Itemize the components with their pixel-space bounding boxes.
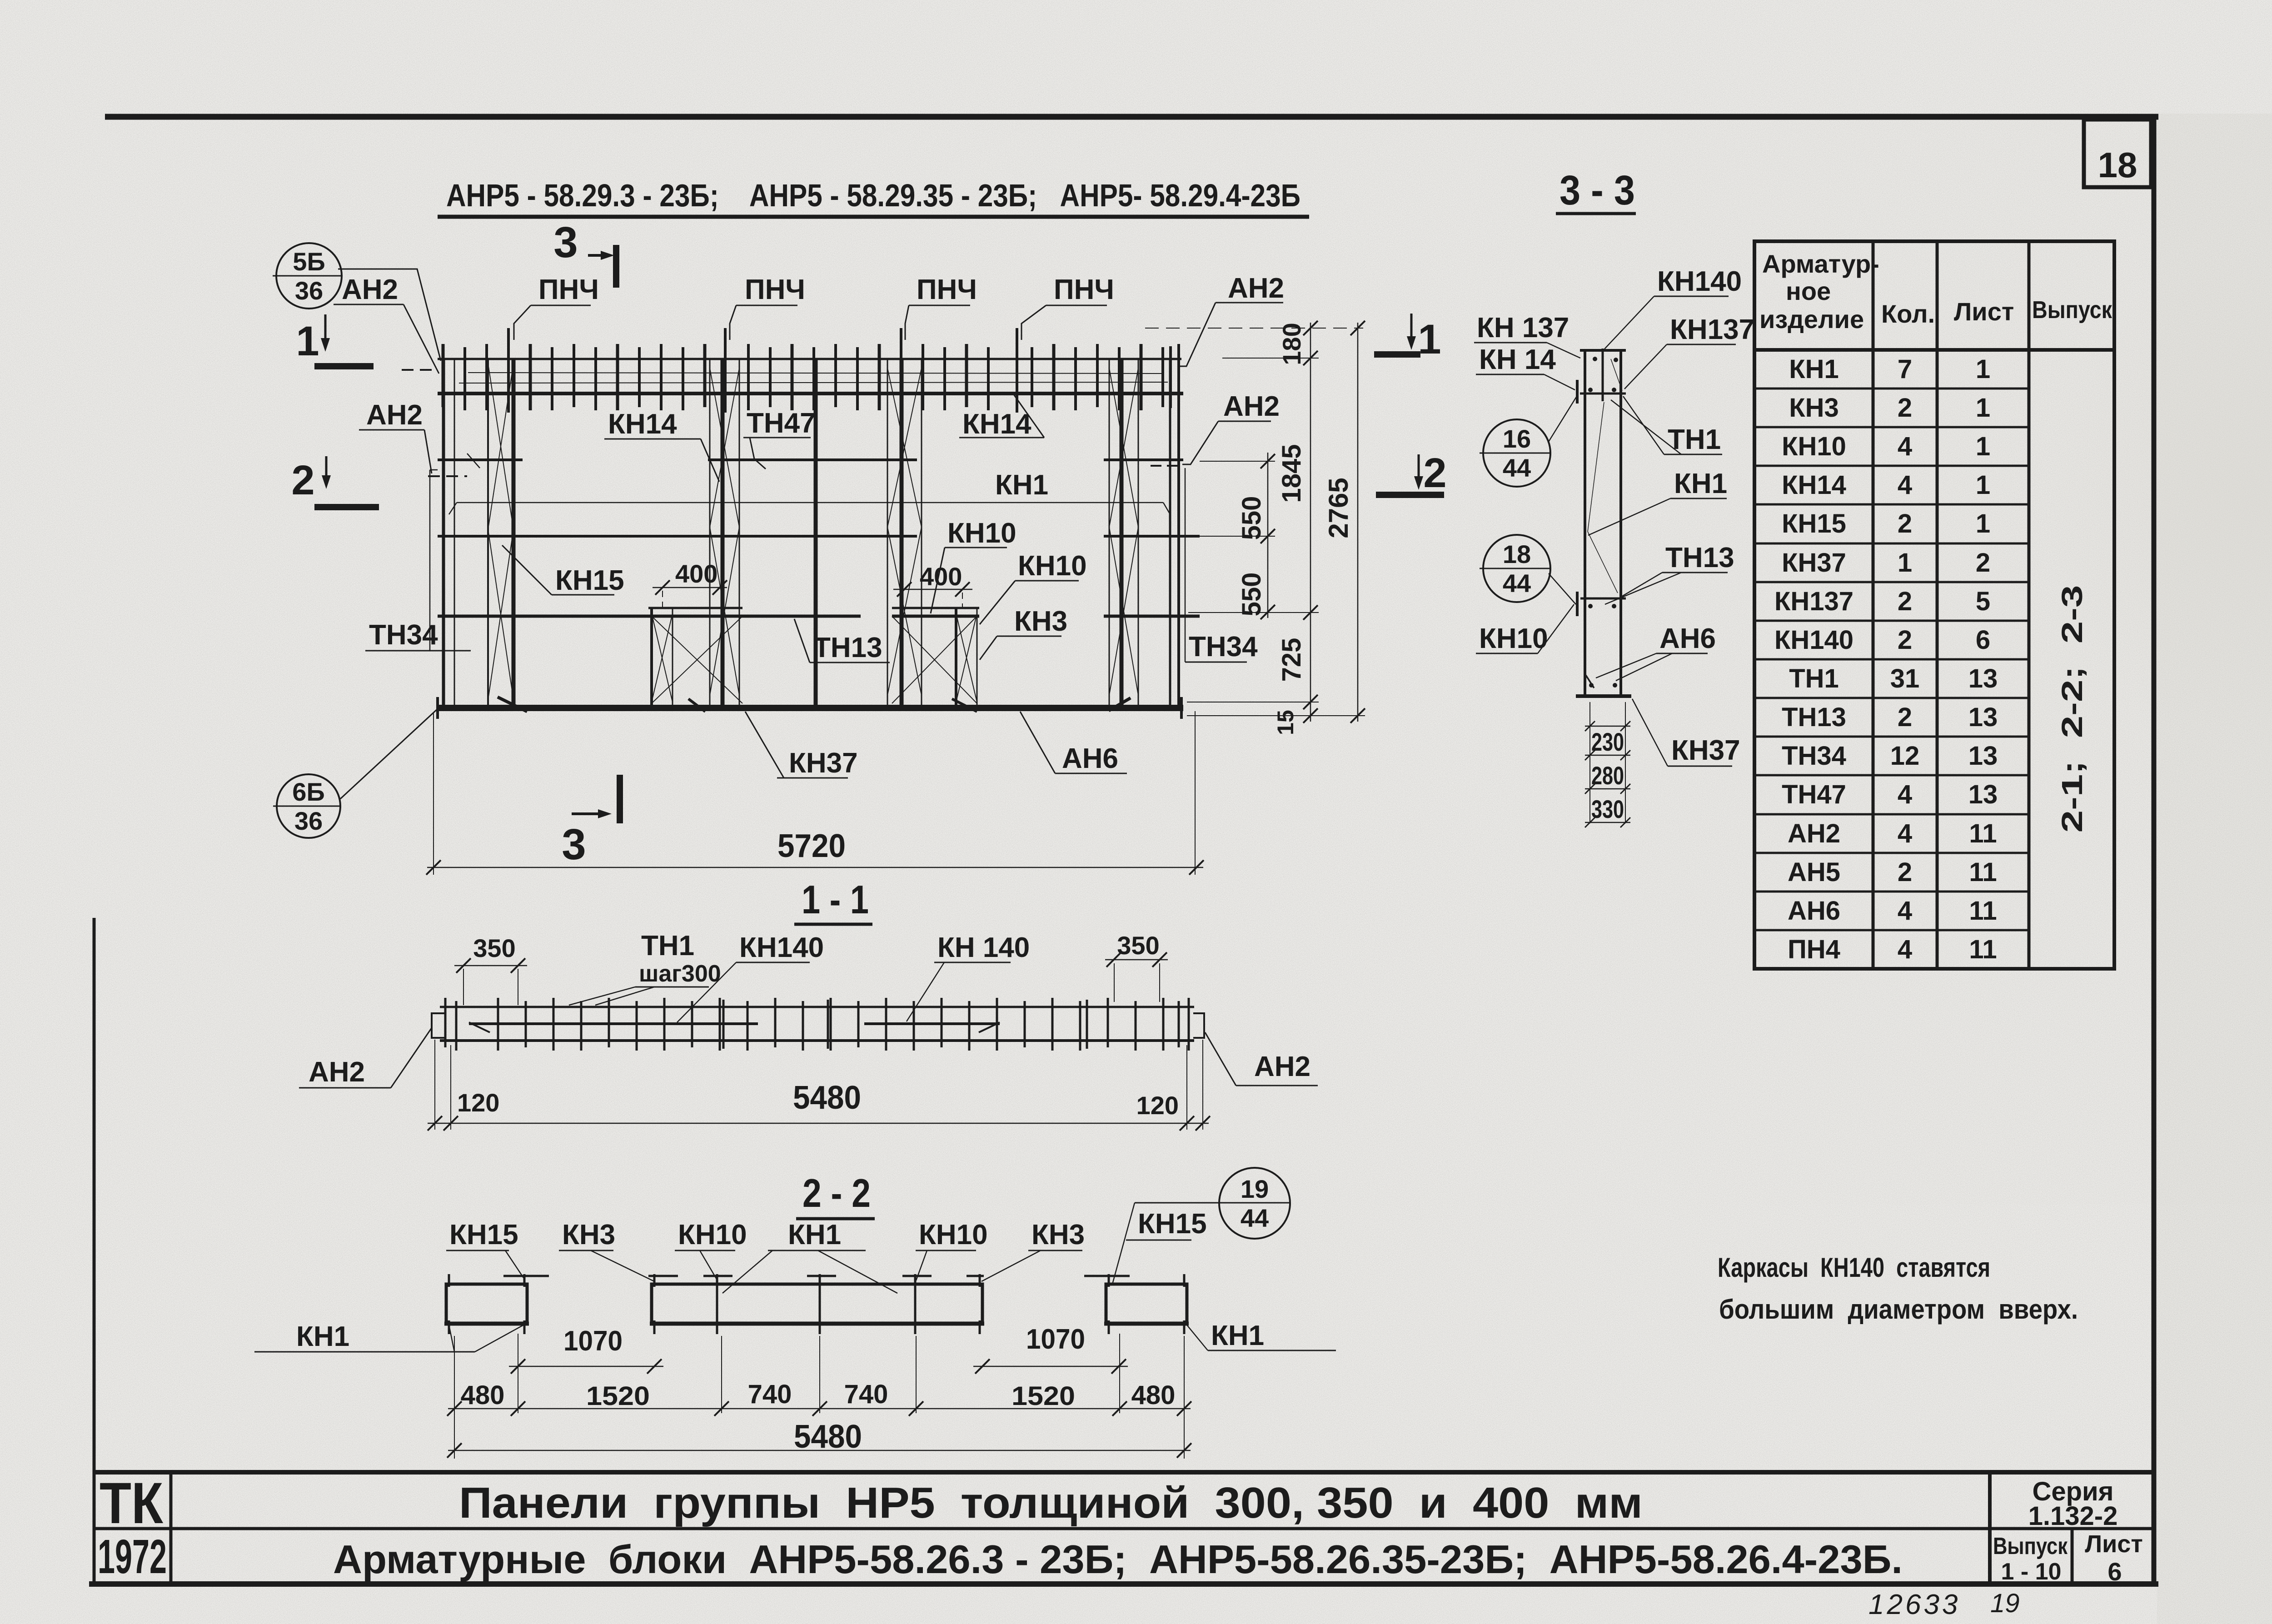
label КН140 1-1 left bbox=[677, 932, 824, 1022]
elevation left edge cage bbox=[443, 359, 454, 708]
elevation tie row 1 (1845 level) bbox=[438, 458, 1183, 461]
dimension chain 180/1845/725/15 bbox=[1273, 321, 1318, 735]
label КН 140 1-1 right bbox=[907, 932, 1030, 1021]
svg-text:3: 3 bbox=[562, 820, 586, 869]
svg-text:36: 36 bbox=[294, 807, 323, 835]
svg-text:1: 1 bbox=[296, 318, 319, 364]
title block verticals bbox=[171, 1472, 2072, 1584]
page number box bbox=[2084, 120, 2151, 187]
label КН15 2-2 right bbox=[1126, 1208, 1207, 1240]
svg-text:КН10: КН10 bbox=[919, 1219, 988, 1250]
note Каркасы КН140 ставятся большим диаметром вверх bbox=[1718, 1252, 2078, 1325]
section 3-3 band line bbox=[1580, 393, 1626, 395]
label АН2 top-left bbox=[334, 274, 439, 374]
section 1-1 bar КН140 left bbox=[469, 1022, 758, 1032]
section 2-2 cage right (КН15/КН1) bbox=[1104, 1274, 1189, 1334]
svg-text:КН1: КН1 bbox=[1211, 1320, 1264, 1351]
svg-text:1 - 10: 1 - 10 bbox=[2001, 1559, 2062, 1585]
handwritten archive number 12633 bbox=[1868, 1589, 1960, 1620]
section 1-1 stirrup ticks ТН1 bbox=[445, 998, 1189, 1051]
dimension 400 right bbox=[893, 562, 972, 609]
svg-text:4: 4 bbox=[1898, 935, 1912, 964]
elevation band stirrup ticks bbox=[443, 344, 1179, 410]
label КН10 2-2 left bbox=[675, 1219, 747, 1281]
label КН137 right 3-3 bbox=[1624, 314, 1754, 389]
svg-text:КН 140: КН 140 bbox=[937, 932, 1030, 963]
label ТН47 bbox=[743, 408, 816, 469]
elevation pier 4 cage КН15 bbox=[1109, 359, 1138, 707]
svg-text:ПНЧ: ПНЧ bbox=[1054, 274, 1114, 305]
dimension chain 480/1520/740/740/1520/480 bbox=[447, 1334, 1191, 1459]
title block 1972 bbox=[98, 1530, 167, 1584]
svg-text:КН15: КН15 bbox=[1782, 509, 1846, 538]
svg-text:КН14: КН14 bbox=[608, 408, 677, 440]
section 3-3 tick mark lower bbox=[1576, 592, 1579, 616]
label АН2 1-1 right bbox=[1205, 1032, 1318, 1086]
label КН14 right bbox=[959, 393, 1044, 440]
svg-text:5480: 5480 bbox=[793, 1080, 861, 1116]
svg-text:КН140: КН140 bbox=[739, 932, 824, 963]
label КН3 2-2 left bbox=[559, 1219, 654, 1281]
svg-text:1 - 1: 1 - 1 bbox=[802, 877, 869, 922]
svg-text:АН2: АН2 bbox=[1788, 819, 1840, 848]
title row 2 Арматурные блоки АНР5-58.26.3-23Б; АНР5-58.26.35-23Б; АНР5-58.26.4-23Б. bbox=[333, 1537, 1903, 1582]
svg-text:Кол.: Кол. bbox=[1881, 299, 1935, 328]
svg-text:16: 16 bbox=[1503, 424, 1531, 453]
elevation pier 1 cage КН15 bbox=[488, 359, 513, 707]
svg-text:КН3: КН3 bbox=[1014, 606, 1067, 637]
section 3-3 member verticals bbox=[1585, 350, 1621, 696]
label ПН4 #3 bbox=[905, 274, 977, 340]
svg-text:11: 11 bbox=[1969, 935, 1997, 964]
label КН 137 left 3-3 bbox=[1474, 312, 1580, 358]
svg-text:4: 4 bbox=[1898, 432, 1912, 461]
svg-text:350: 350 bbox=[473, 934, 515, 962]
dimension 5480 section 2-2 bbox=[447, 1419, 1191, 1458]
elevation top chord thin longitudinal bars bbox=[459, 373, 1168, 383]
svg-text:2: 2 bbox=[1898, 587, 1912, 616]
label ТН34 right bbox=[1185, 468, 1258, 663]
svg-text:КН15: КН15 bbox=[555, 565, 624, 596]
frame left border (lower half) bbox=[93, 918, 96, 1584]
sheet title АНР5-58.29.3-23Б; АНР5-58.29.35-23Б; АНР5-58.29.4-23Б bbox=[446, 178, 1300, 213]
svg-text:КН1: КН1 bbox=[995, 469, 1048, 501]
svg-text:1: 1 bbox=[1976, 354, 1990, 384]
svg-text:725: 725 bbox=[1277, 638, 1306, 682]
table body rows bbox=[1774, 354, 1998, 964]
svg-text:19: 19 bbox=[1241, 1175, 1269, 1203]
svg-text:12633: 12633 bbox=[1868, 1589, 1960, 1620]
elevation right edge cage bbox=[1170, 359, 1179, 707]
section 1-1 right end hook bbox=[1193, 1013, 1204, 1038]
title block bottom border bbox=[89, 1581, 2158, 1587]
label КН10 3-3 bbox=[1476, 604, 1574, 654]
svg-text:480: 480 bbox=[461, 1380, 505, 1410]
section 3-3 hook mark bbox=[1586, 675, 1594, 688]
svg-text:44: 44 bbox=[1241, 1204, 1269, 1232]
svg-text:13: 13 bbox=[1968, 741, 1998, 771]
label КН3 bbox=[980, 606, 1067, 660]
svg-text:44: 44 bbox=[1503, 569, 1531, 598]
svg-text:18: 18 bbox=[1503, 540, 1531, 568]
svg-text:1070: 1070 bbox=[563, 1325, 623, 1357]
svg-text:330: 330 bbox=[1591, 795, 1624, 823]
handwritten page 19 bbox=[1990, 1589, 2020, 1618]
svg-text:36: 36 bbox=[295, 276, 323, 305]
title block ТК bbox=[100, 1471, 164, 1536]
callout circle 16/44 bbox=[1480, 396, 1577, 487]
svg-text:АН2: АН2 bbox=[1228, 273, 1284, 304]
callout circle 18/44 bbox=[1480, 535, 1576, 604]
dimension 350 right bbox=[1105, 931, 1168, 1002]
dashed bar end АН2 left bbox=[402, 369, 438, 371]
svg-text:ПНЧ: ПНЧ bbox=[745, 274, 805, 305]
section 1-1 bottom bar bbox=[440, 1039, 1194, 1042]
svg-text:1: 1 bbox=[1976, 470, 1990, 500]
svg-text:КН1: КН1 bbox=[296, 1321, 349, 1352]
elevation pier 2 cage КН14 bbox=[710, 359, 739, 707]
svg-text:АН2: АН2 bbox=[1254, 1051, 1310, 1082]
elevation centre column ТН13 bar bbox=[814, 359, 818, 707]
label КН10 2-2 right bbox=[916, 1219, 988, 1280]
svg-text:230: 230 bbox=[1591, 727, 1624, 756]
svg-text:3 - 3: 3 - 3 bbox=[1560, 167, 1635, 214]
svg-text:31: 31 bbox=[1890, 664, 1920, 693]
section marker 2 left bbox=[291, 456, 379, 510]
dimension 400 left bbox=[653, 559, 727, 609]
svg-text:КН 14: КН 14 bbox=[1479, 344, 1556, 375]
svg-text:2-1; 2-2; 2-3: 2-1; 2-2; 2-3 bbox=[2056, 585, 2088, 833]
svg-text:Каркасы КН140 ставятся: Каркасы КН140 ставятся bbox=[1718, 1252, 1990, 1283]
svg-text:ТН1: ТН1 bbox=[641, 930, 694, 961]
svg-text:550: 550 bbox=[1237, 496, 1266, 540]
label ТН13 bbox=[794, 619, 890, 663]
svg-text:400: 400 bbox=[675, 559, 717, 588]
dimension 5720 bbox=[426, 711, 1204, 875]
label КН1 2-2 bbox=[722, 1219, 897, 1293]
svg-text:КН137: КН137 bbox=[1774, 587, 1853, 616]
label ТН13 3-3 bbox=[1605, 542, 1734, 604]
svg-text:КН15: КН15 bbox=[1138, 1208, 1207, 1240]
label ТН34 left bbox=[365, 470, 471, 651]
label ТН1 3-3 bbox=[1611, 396, 1722, 455]
svg-text:ТН13: ТН13 bbox=[1782, 702, 1846, 732]
svg-text:11: 11 bbox=[1969, 896, 1997, 926]
dimension 1070 right bbox=[973, 1324, 1128, 1374]
section 3-3 tie line bbox=[1580, 598, 1626, 600]
section 1-1 left end hook bbox=[432, 1013, 444, 1038]
svg-text:АН6: АН6 bbox=[1659, 623, 1716, 654]
dimension chain 550/550 bbox=[1237, 453, 1275, 619]
label ТН1 1-1 bbox=[569, 930, 721, 1005]
label КН3 2-2 right bbox=[982, 1219, 1085, 1281]
label АН2 top-right bbox=[1180, 273, 1284, 366]
svg-text:1845: 1845 bbox=[1277, 444, 1306, 503]
svg-text:ТН47: ТН47 bbox=[1782, 780, 1846, 809]
svg-text:5: 5 bbox=[1976, 587, 1990, 616]
elevation pier 3 cage КН14 bbox=[887, 359, 922, 707]
elevation bottom chord end ticks bbox=[438, 697, 1181, 719]
label КН1 3-3 bbox=[1588, 468, 1727, 535]
svg-text:Лист: Лист bbox=[2085, 1530, 2143, 1558]
svg-text:1: 1 bbox=[1976, 393, 1990, 423]
label АН2 1-1 left bbox=[299, 1028, 432, 1088]
svg-text:АН5: АН5 bbox=[1788, 857, 1840, 887]
svg-text:2 - 2: 2 - 2 bbox=[802, 1171, 871, 1216]
svg-text:120: 120 bbox=[1136, 1091, 1179, 1120]
svg-text:2: 2 bbox=[291, 457, 314, 503]
svg-text:1.132-2: 1.132-2 bbox=[2028, 1501, 2118, 1531]
elevation pedestal 1 top bar bbox=[648, 607, 742, 609]
svg-text:2: 2 bbox=[1423, 450, 1446, 496]
svg-text:4: 4 bbox=[1898, 896, 1912, 926]
svg-text:Панели группы НР5 толщиной: Панели группы НР5 толщиной 300, 350 и 40… bbox=[459, 1479, 1643, 1527]
dashed bar end АН2 right bbox=[1151, 465, 1181, 467]
table grid bbox=[1754, 241, 2114, 969]
elevation hook bar right opening bbox=[1109, 698, 1131, 711]
svg-text:120: 120 bbox=[457, 1088, 499, 1117]
svg-text:1: 1 bbox=[1418, 316, 1441, 363]
label АН2 right-lower bbox=[1182, 391, 1280, 464]
svg-text:4: 4 bbox=[1898, 780, 1912, 809]
svg-text:1070: 1070 bbox=[1026, 1324, 1085, 1355]
svg-text:ТН34: ТН34 bbox=[1189, 631, 1258, 663]
svg-text:КН10: КН10 bbox=[1479, 623, 1548, 654]
svg-text:шаг300: шаг300 bbox=[639, 961, 721, 987]
svg-text:4: 4 bbox=[1898, 819, 1912, 848]
svg-text:ТН47: ТН47 bbox=[747, 408, 816, 439]
svg-text:ТК: ТК bbox=[100, 1471, 164, 1536]
svg-text:КН10: КН10 bbox=[678, 1219, 747, 1250]
svg-text:18: 18 bbox=[2098, 145, 2137, 185]
svg-text:1520: 1520 bbox=[1011, 1381, 1075, 1411]
table note 2-1; 2-2; 2-3 bbox=[2056, 585, 2088, 833]
elevation hook bar left opening bbox=[498, 697, 527, 712]
title underline bbox=[438, 215, 1309, 219]
callout circle 6Б/36 bbox=[273, 709, 438, 838]
svg-text:КН1: КН1 bbox=[1789, 354, 1839, 384]
svg-text:КН14: КН14 bbox=[962, 408, 1031, 440]
label АН2 mid-left bbox=[359, 399, 432, 473]
svg-text:ное: ное bbox=[1786, 277, 1831, 305]
dimension 350 left bbox=[454, 934, 527, 1005]
section 2-2 floating bar left bbox=[503, 1275, 549, 1277]
svg-text:КН37: КН37 bbox=[1782, 548, 1846, 578]
heading 3-3 bbox=[1556, 167, 1636, 214]
elevation sill tie row 3 bbox=[438, 615, 1200, 618]
section 3-3 small dots bbox=[1588, 357, 1618, 687]
svg-text:КН10: КН10 bbox=[947, 518, 1016, 549]
svg-text:Лист: Лист bbox=[1954, 297, 2014, 326]
label КН37 3-3 bbox=[1632, 699, 1740, 766]
frame right border bbox=[2152, 115, 2157, 1586]
title block Лист 6 bbox=[2085, 1530, 2143, 1586]
svg-text:4: 4 bbox=[1898, 470, 1912, 500]
svg-text:ПНЧ: ПНЧ bbox=[538, 274, 599, 305]
svg-text:ТН13: ТН13 bbox=[813, 632, 882, 663]
frame top border bbox=[105, 114, 2158, 120]
table header bbox=[1759, 249, 2113, 334]
svg-text:12: 12 bbox=[1890, 741, 1920, 771]
svg-text:740: 740 bbox=[748, 1380, 792, 1409]
title row 1 Панели группы НР5 толщиной 300, 350 и 400 мм bbox=[459, 1479, 1643, 1527]
svg-text:6Б: 6Б bbox=[292, 777, 324, 806]
label КН1 elevation bbox=[995, 469, 1048, 501]
elevation bottom chord bbox=[436, 705, 1183, 711]
svg-text:АН6: АН6 bbox=[1788, 896, 1840, 926]
svg-text:Выпуск: Выпуск bbox=[1993, 1533, 2068, 1559]
svg-text:13: 13 bbox=[1968, 702, 1998, 732]
svg-text:ПНЧ: ПНЧ bbox=[917, 274, 977, 305]
section 1-1 bar КН140 right bbox=[864, 1022, 1000, 1032]
svg-text:280: 280 bbox=[1591, 761, 1624, 790]
svg-text:7: 7 bbox=[1898, 354, 1912, 384]
svg-text:550: 550 bbox=[1237, 573, 1266, 617]
section 2-2 middle cages (КН3/КН10/КН1) bbox=[650, 1274, 984, 1334]
svg-text:180: 180 bbox=[1277, 323, 1306, 365]
dimension 120/5480/120 bbox=[428, 1040, 1210, 1131]
page number 18 bbox=[2098, 145, 2137, 185]
svg-text:КН3: КН3 bbox=[1789, 393, 1839, 423]
svg-text:АН6: АН6 bbox=[1062, 743, 1118, 774]
elevation top chord bottom bar bbox=[438, 392, 1183, 395]
svg-text:КН137: КН137 bbox=[1670, 314, 1754, 345]
svg-text:2: 2 bbox=[1898, 393, 1912, 423]
label КН15 2-2 left bbox=[446, 1219, 523, 1278]
callout circle 5Б/36 bbox=[273, 243, 441, 361]
section 2-2 floating bars middle bbox=[648, 1275, 984, 1277]
dashed bar end АН2 mid-left bbox=[428, 475, 467, 477]
title block top border bbox=[93, 1470, 2156, 1475]
svg-text:КН 137: КН 137 bbox=[1477, 312, 1569, 344]
svg-text:740: 740 bbox=[844, 1380, 888, 1409]
label КН37 bbox=[745, 712, 858, 779]
elevation stub cage КН10 left bbox=[652, 608, 742, 707]
svg-text:1: 1 bbox=[1976, 432, 1990, 461]
svg-text:5Б: 5Б bbox=[293, 247, 325, 276]
svg-text:11: 11 bbox=[1969, 857, 1997, 887]
dimension 2765 overall bbox=[1323, 321, 1365, 723]
svg-text:2: 2 bbox=[1898, 625, 1912, 655]
section marker 3 bottom bbox=[562, 775, 623, 869]
svg-text:Арматур-: Арматур- bbox=[1762, 249, 1879, 278]
label ПН4 #2 bbox=[730, 274, 805, 340]
svg-text:2: 2 bbox=[1898, 702, 1912, 732]
svg-text:44: 44 bbox=[1503, 453, 1531, 482]
section 3-3 top cap bbox=[1580, 349, 1626, 352]
title block row divider bbox=[93, 1527, 2156, 1530]
svg-text:2: 2 bbox=[1898, 509, 1912, 538]
svg-text:АН2: АН2 bbox=[1223, 391, 1280, 422]
svg-text:480: 480 bbox=[1131, 1380, 1176, 1410]
svg-text:большим диаметром вверх.: большим диаметром вверх. bbox=[1719, 1294, 2078, 1325]
section marker 1 right bbox=[1374, 314, 1441, 363]
svg-text:ПН4: ПН4 bbox=[1788, 935, 1840, 964]
label КН140 3-3 bbox=[1604, 266, 1742, 349]
heading 2-2 bbox=[796, 1171, 875, 1219]
dimension extension lines right bbox=[1145, 328, 1365, 716]
section marker 1 left bbox=[296, 314, 374, 369]
section 3-3 centre bar bbox=[1602, 349, 1604, 401]
title block Серия 1.132-2 bbox=[2028, 1477, 2118, 1531]
label КН1 2-2 left side bbox=[254, 1321, 523, 1352]
elevation pedestal 2 top bar bbox=[892, 607, 979, 609]
svg-text:ТН13: ТН13 bbox=[1665, 542, 1734, 573]
svg-text:6: 6 bbox=[1976, 625, 1990, 655]
elevation bar КН1 thin longitudinal bbox=[449, 453, 1170, 514]
svg-text:2765: 2765 bbox=[1323, 478, 1354, 538]
svg-text:КН37: КН37 bbox=[1671, 735, 1740, 766]
label КН15 bbox=[502, 545, 624, 596]
svg-text:АН2: АН2 bbox=[366, 399, 423, 431]
svg-text:1: 1 bbox=[1898, 548, 1912, 578]
svg-text:13: 13 bbox=[1968, 780, 1998, 809]
svg-text:ТН34: ТН34 bbox=[369, 619, 438, 651]
section 3-3 internal diagonals bbox=[1588, 359, 1622, 593]
elevation band tall bars ПН4 bbox=[508, 328, 1017, 413]
label ПН4 #4 bbox=[1021, 274, 1114, 340]
label ПН4 #1 bbox=[514, 274, 599, 340]
label КН14 left bbox=[604, 408, 719, 482]
svg-text:АНР5 - 58.29.3 - 23Б; АНР5: АНР5 - 58.29.3 - 23Б; АНР5 - 58.29.35 - … bbox=[446, 178, 1300, 213]
svg-text:изделие: изделие bbox=[1759, 305, 1864, 334]
svg-text:КН3: КН3 bbox=[1031, 1219, 1085, 1250]
label АН6 3-3 bbox=[1596, 623, 1716, 681]
svg-text:КН140: КН140 bbox=[1657, 266, 1742, 297]
elevation hook bar left pedestal bbox=[688, 699, 705, 712]
label АН6 elevation bbox=[1020, 712, 1127, 774]
section 2-2 cage left (КН15/КН1) bbox=[444, 1274, 529, 1334]
svg-text:11: 11 bbox=[1969, 819, 1997, 848]
svg-text:3: 3 bbox=[553, 218, 578, 267]
svg-text:15: 15 bbox=[1273, 710, 1298, 735]
svg-text:КН3: КН3 bbox=[562, 1219, 615, 1250]
svg-text:ТН34: ТН34 bbox=[1782, 741, 1846, 771]
label КН10 b bbox=[980, 550, 1087, 624]
svg-text:ТН1: ТН1 bbox=[1789, 664, 1839, 693]
heading 1-1 bbox=[794, 877, 872, 924]
svg-text:1972: 1972 bbox=[98, 1530, 167, 1584]
svg-text:АН2: АН2 bbox=[309, 1056, 365, 1088]
section 1-1 top bar bbox=[440, 1006, 1194, 1008]
svg-text:АН2: АН2 bbox=[342, 274, 398, 305]
label КН1 2-2 right side bbox=[1187, 1320, 1336, 1351]
label КН10 a bbox=[931, 518, 1016, 613]
dimension stack 230/280/330 bbox=[1585, 702, 1630, 827]
svg-text:5720: 5720 bbox=[777, 828, 846, 864]
svg-text:КН1: КН1 bbox=[788, 1219, 841, 1250]
svg-text:КН14: КН14 bbox=[1782, 470, 1846, 500]
svg-text:1: 1 bbox=[1976, 509, 1990, 538]
elevation hook bar right pedestal bbox=[952, 699, 977, 712]
svg-text:КН10: КН10 bbox=[1782, 432, 1846, 461]
elevation stub cage КН10 right bbox=[892, 608, 977, 707]
svg-text:5480: 5480 bbox=[794, 1419, 862, 1455]
svg-text:Выпуск: Выпуск bbox=[2032, 296, 2113, 324]
section marker 3 top bbox=[553, 218, 619, 288]
svg-text:2: 2 bbox=[1898, 857, 1912, 887]
svg-text:КН1: КН1 bbox=[1674, 468, 1727, 499]
elevation tie row 2 bbox=[438, 535, 1200, 538]
dimension 1070 left bbox=[509, 1325, 663, 1374]
svg-text:13: 13 bbox=[1968, 664, 1998, 693]
label КН 14 3-3 bbox=[1476, 344, 1575, 390]
section 3-3 tick mark upper bbox=[1576, 380, 1579, 404]
svg-text:350: 350 bbox=[1117, 931, 1159, 960]
title block Выпуск 1-10 bbox=[1993, 1533, 2068, 1585]
callout circle 19/44 bbox=[1112, 1168, 1290, 1284]
section marker 2 right bbox=[1376, 450, 1447, 498]
